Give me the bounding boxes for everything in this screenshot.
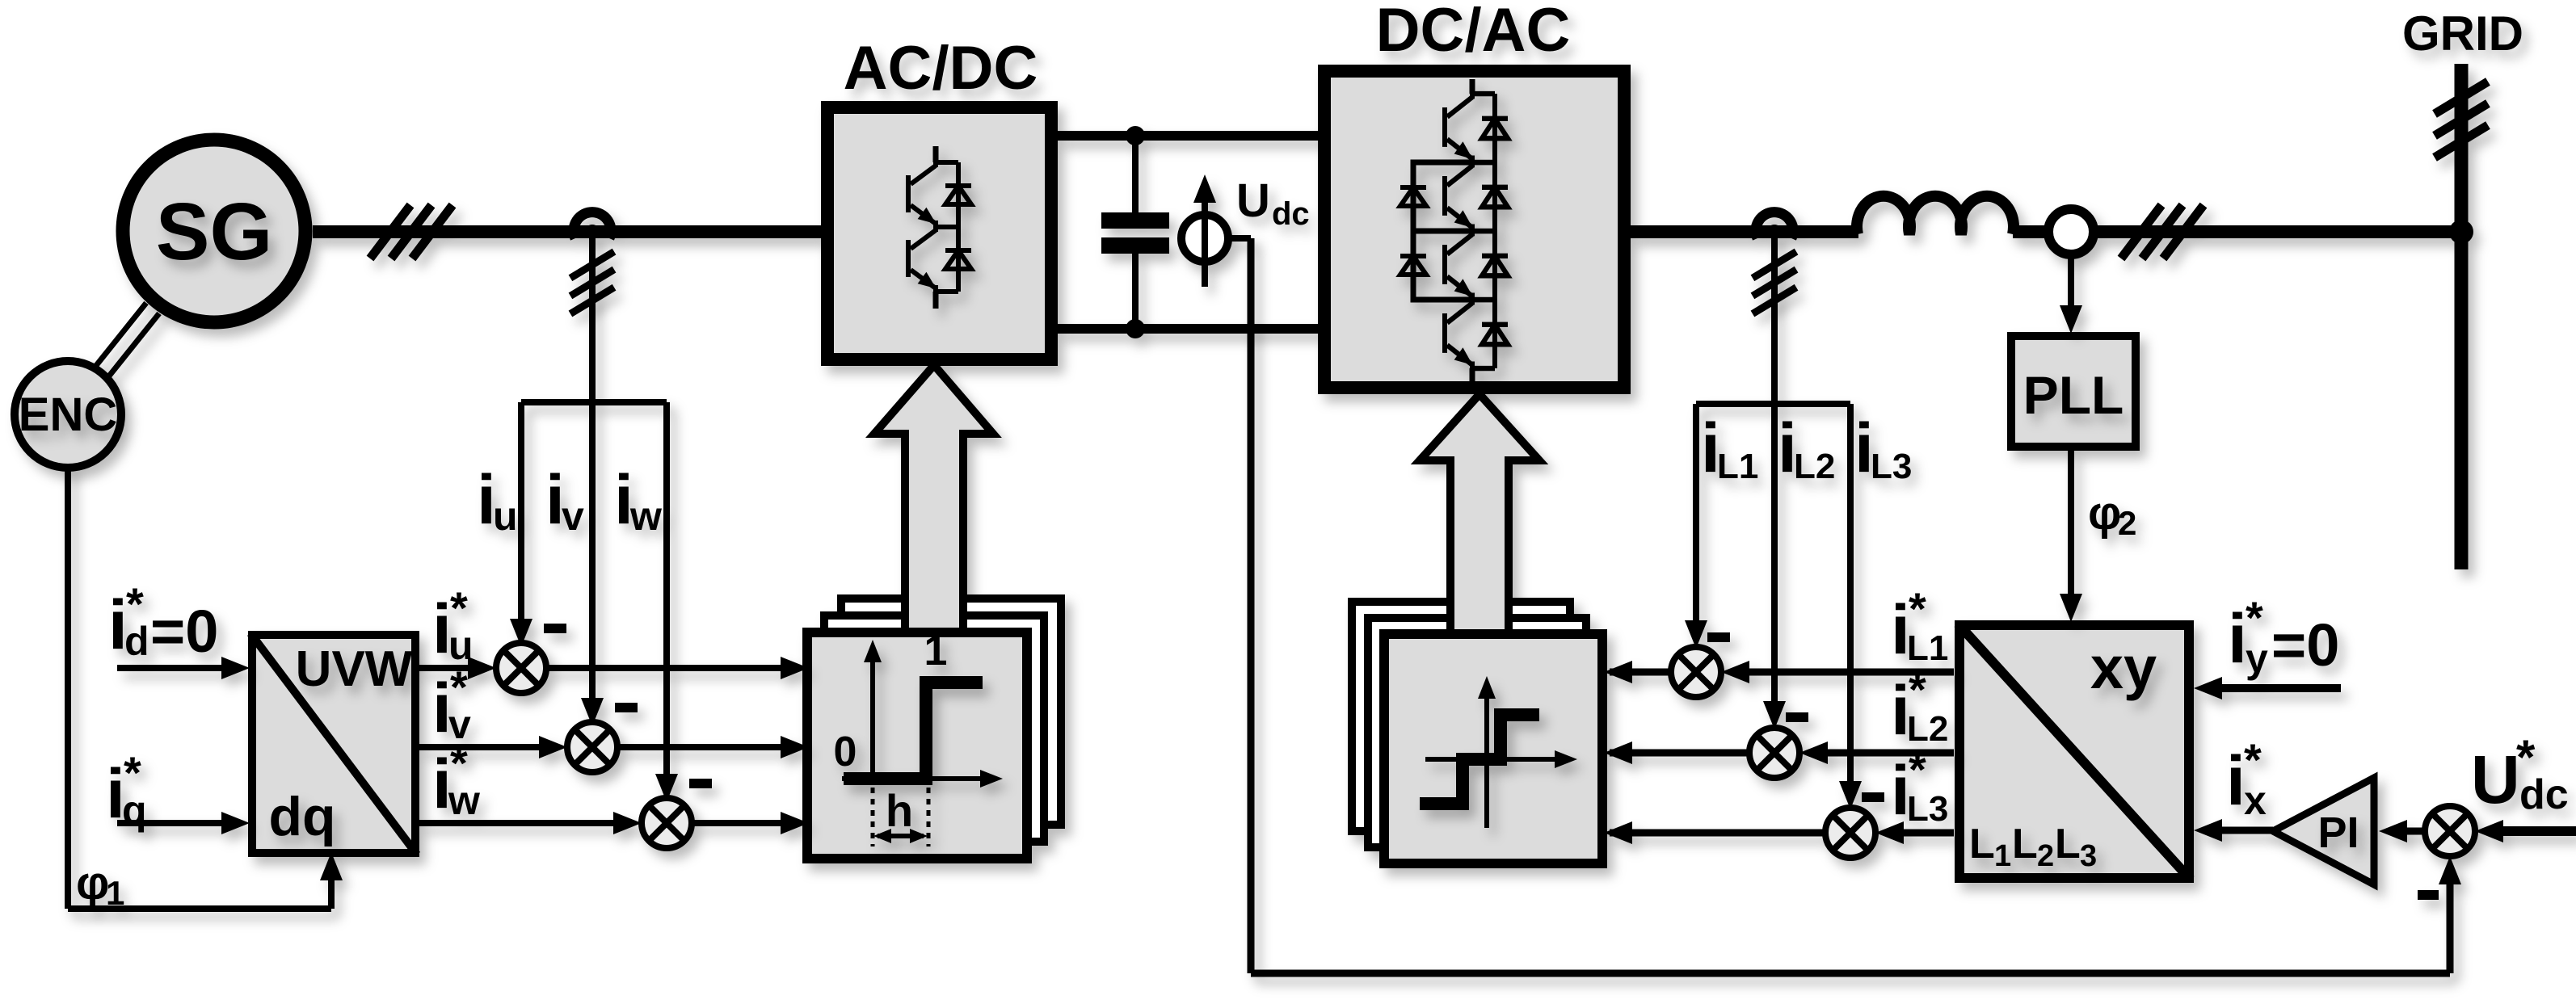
wire: DC link top rail — [1058, 131, 1318, 141]
label phi1 — [76, 857, 124, 912]
label iw — [614, 461, 662, 539]
label iL1* — [1891, 583, 1948, 669]
svg-text:v: v — [562, 494, 584, 539]
svg-text:x: x — [2244, 778, 2267, 823]
wire: iw measurement drop — [663, 402, 670, 777]
minus sign at node w — [689, 779, 712, 788]
GRID bus slashes — [2435, 82, 2488, 158]
svg-text:*: * — [1909, 664, 1926, 715]
svg-text:y: y — [2246, 636, 2268, 681]
svg-text:L3: L3 — [1907, 789, 1948, 829]
label iL3* — [1891, 744, 1948, 830]
wire: iL1 error to hysteresis 2 — [1610, 669, 1671, 676]
label iL2 — [1778, 410, 1835, 487]
label iv* — [432, 662, 471, 747]
label iL2* — [1891, 664, 1948, 750]
wire: iu error to hysteresis 1 — [546, 665, 789, 671]
svg-text:u: u — [493, 494, 518, 539]
label L1L2L3 — [1969, 821, 2097, 873]
current transducer grid side — [1753, 212, 1796, 314]
summing node L3 — [1825, 808, 1875, 858]
hysteresis plot 1 h dimension — [873, 788, 928, 846]
LAYER2: machines and blocks — [15, 71, 2374, 884]
voltage transducer grid (PLL tap) — [2048, 209, 2094, 254]
wire: grid measurement bracket — [1696, 401, 1850, 407]
svg-text:L: L — [1969, 821, 1995, 867]
svg-text:*: * — [1909, 583, 1926, 634]
summing node L1 — [1671, 647, 1721, 697]
transistor Q2 AC/DC leg bottom IGBT — [908, 227, 971, 294]
inductor L filter — [1857, 196, 2014, 234]
svg-text:xy: xy — [2090, 634, 2157, 701]
block xy/L1L2L3 transform — [1958, 624, 2191, 880]
hysteresis controller 1 stacked sheets and gate arrow — [807, 365, 1061, 859]
svg-text:UVW: UVW — [296, 641, 413, 697]
minus sign at node v — [615, 703, 638, 712]
wire: iu measurement drop — [518, 402, 524, 624]
svg-text:L2: L2 — [1794, 447, 1835, 486]
block PLL — [2011, 336, 2136, 447]
hysteresis plot 1 axes — [842, 640, 1003, 788]
summing node u — [496, 643, 546, 693]
svg-text:dc: dc — [1272, 196, 1310, 232]
summing node w — [642, 798, 692, 848]
wire: iL3 measurement drop — [1847, 404, 1854, 787]
svg-text:w: w — [629, 494, 662, 539]
wire: iv measurement down from machine transducer — [589, 232, 596, 703]
hysteresis plot 2 step curve — [1420, 715, 1539, 804]
svg-text:AC/DC: AC/DC — [844, 34, 1038, 103]
block UVW/dq transform — [250, 633, 417, 855]
converter AC/DC box — [827, 107, 1051, 359]
label iu — [477, 461, 518, 539]
svg-text:1: 1 — [924, 628, 948, 674]
svg-text:w: w — [448, 778, 480, 823]
label phi2 — [2088, 487, 2136, 542]
3-phase slashes machine line — [370, 205, 452, 258]
label iy*=0 — [2228, 592, 2339, 681]
svg-text:2: 2 — [2118, 504, 2136, 542]
svg-text:dc: dc — [2519, 771, 2569, 818]
svg-text:PLL: PLL — [2023, 365, 2124, 425]
generator SG — [123, 140, 305, 322]
wire: iy*=0 input — [2216, 684, 2341, 692]
svg-text:U: U — [1236, 174, 1270, 227]
svg-text:1: 1 — [1994, 839, 2011, 873]
LAYER1: power circuit wires — [313, 64, 2488, 569]
wire: iL2 error to hysteresis 2 — [1610, 750, 1749, 757]
converter DC/AC box — [1324, 71, 1624, 388]
block PI controller — [2273, 778, 2374, 884]
svg-text:DC/AC: DC/AC — [1376, 0, 1571, 65]
svg-text:L1: L1 — [1907, 628, 1948, 668]
svg-text:L2: L2 — [1907, 709, 1948, 749]
transistor Q5 DC/AC NPC leg IGBT 3 — [1445, 231, 1508, 303]
diode D5 NPC clamp upper — [1400, 162, 1472, 231]
wire: iq* input to UVW block — [117, 820, 230, 826]
wire: SG to AC/DC 3-phase line — [313, 225, 821, 238]
LAYER3: symbols inside blocks — [842, 79, 1577, 846]
label iv — [545, 461, 584, 539]
svg-text:L: L — [2055, 821, 2081, 867]
svg-text:L3: L3 — [1871, 447, 1912, 486]
label ix* — [2226, 734, 2267, 823]
wire: grid voltage tap to PLL — [2068, 256, 2074, 313]
svg-text:φ: φ — [76, 857, 110, 909]
svg-text:1: 1 — [106, 874, 124, 912]
hysteresis plot 2 axes — [1425, 676, 1577, 828]
label iw* — [432, 737, 480, 823]
node: dc link top dot — [1126, 126, 1145, 145]
label iL3 — [1854, 410, 1912, 487]
transistor Q3 DC/AC NPC leg IGBT 1 — [1470, 79, 1475, 94]
svg-text:U: U — [2471, 741, 2520, 817]
transistor Q4 DC/AC NPC leg IGBT 2 — [1445, 162, 1508, 234]
svg-text:PI: PI — [2317, 809, 2359, 857]
shaft SG-ENC coupling — [95, 303, 159, 378]
minus sign at node L2 — [1786, 712, 1808, 722]
svg-text:L1: L1 — [1717, 447, 1758, 486]
wire: iv error to hysteresis 1 — [617, 744, 789, 750]
label Udc measurement — [1236, 174, 1310, 232]
svg-text:=0: =0 — [2271, 611, 2339, 678]
label id*=0 — [108, 578, 218, 665]
svg-text:2: 2 — [2037, 839, 2054, 873]
current transducer machine side — [570, 212, 614, 314]
wire: phi1 from ENC to UVW block — [68, 464, 331, 909]
wire: iw* row to summing node — [419, 820, 621, 826]
wire: Udc* reference input — [2501, 826, 2576, 836]
wire: id*=0 input to UVW block — [117, 665, 230, 671]
LAYER4: control wiring — [68, 232, 2576, 973]
wire: DC link bottom rail — [1058, 324, 1318, 334]
wire: machine measurement bracket — [521, 399, 667, 405]
voltage transducer Udc — [1181, 174, 1251, 287]
wire: Udc error to PI — [2395, 828, 2425, 835]
summing node Udc — [2425, 806, 2475, 856]
wire: iw error to hysteresis 1 — [692, 820, 789, 826]
svg-text:GRID: GRID — [2402, 6, 2523, 61]
svg-text:i: i — [2226, 742, 2246, 820]
label Udc* reference — [2471, 730, 2569, 818]
wire: iL2 measurement down from grid transducer — [1771, 232, 1778, 707]
label iu* — [432, 582, 474, 668]
wire: iL2* row to summing node — [1820, 750, 1954, 757]
diode D6 NPC clamp lower — [1400, 231, 1472, 300]
minus sign at node u — [544, 624, 566, 633]
wire: phi2 PLL to xy block — [2068, 451, 2074, 601]
svg-text:h: h — [886, 785, 913, 836]
wire: iL3 error to hysteresis 2 — [1610, 830, 1825, 837]
3-phase slashes grid line — [2121, 205, 2203, 258]
minus sign at Udc node — [2418, 890, 2439, 900]
label iq* — [106, 747, 147, 833]
node: dc link bottom dot — [1126, 319, 1145, 338]
svg-text:dq: dq — [268, 786, 335, 847]
svg-text:*: * — [1909, 744, 1926, 795]
svg-text:q: q — [122, 788, 147, 833]
node: grid connection dot — [2449, 220, 2473, 244]
wire: ix* from PI to xy block — [2216, 827, 2273, 834]
wire: iv* row to summing node — [419, 744, 546, 750]
svg-text:=0: =0 — [150, 598, 218, 665]
transistor Q1 AC/DC leg top IGBT — [933, 146, 939, 162]
transistor Q6 DC/AC NPC leg IGBT 4 — [1445, 300, 1508, 372]
minus sign at node L1 — [1707, 632, 1730, 642]
summing node L2 — [1749, 728, 1799, 778]
wire: Udc feedback loop — [1251, 238, 2450, 973]
wire: DC/AC to grid line — [1631, 225, 2461, 238]
label iL1 — [1701, 410, 1758, 487]
wire: iL1 measurement drop — [1693, 404, 1699, 626]
svg-text:d: d — [124, 619, 149, 664]
wire: iL1* row to summing node — [1742, 669, 1954, 676]
summing node v — [567, 722, 617, 772]
svg-text:SG: SG — [156, 187, 272, 277]
encoder ENC — [15, 361, 121, 468]
svg-text:i: i — [2228, 600, 2247, 678]
svg-text:L: L — [2012, 821, 2038, 867]
GRID bus bar — [2455, 64, 2469, 569]
capacitor C dc-link — [1132, 136, 1139, 329]
svg-text:0: 0 — [834, 729, 857, 775]
minus sign at node L3 — [1862, 792, 1884, 802]
hysteresis controller 2 stacked sheets and gate arrow — [1352, 394, 1602, 863]
wire: iL3* row to summing node — [1896, 830, 1954, 837]
svg-text:3: 3 — [2080, 839, 2097, 873]
svg-text:ENC: ENC — [19, 389, 117, 441]
svg-text:φ: φ — [2088, 487, 2122, 540]
wire: iu* row to summing node — [419, 665, 475, 671]
hysteresis plot 1 step curve — [844, 683, 983, 779]
